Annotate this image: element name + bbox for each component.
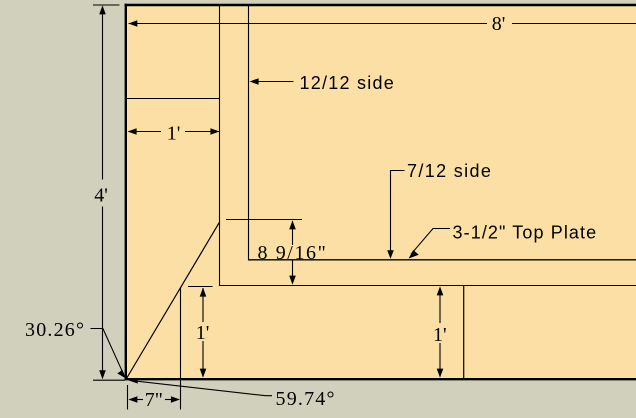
angle 59.74 leader [130, 380, 272, 395]
top border (wall top edge) [125, 4, 636, 6]
label 12/12 side leader [258, 81, 294, 83]
svg-text:7": 7" [145, 389, 163, 411]
dimension 4ft bottom arrow [99, 370, 106, 379]
dimension 8-9/16 top arrow [289, 220, 296, 229]
dimension 4ft bottom tick [93, 379, 125, 381]
dimension 7in left arrow [128, 396, 137, 403]
dimension 8-9/16 line [292, 221, 294, 245]
angle 59.74 arrow [128, 378, 138, 383]
dimension 7in right arrow [171, 396, 180, 403]
dimension 1ft top line [129, 131, 162, 133]
svg-text:4': 4' [94, 185, 108, 207]
hip rafter diagonal [126, 222, 219, 378]
dimension 4ft top arrow [99, 5, 106, 14]
dimension 1ft right top arrow [437, 286, 444, 295]
dimension 1ft top right arrow [210, 128, 219, 135]
dimension 1ft left extension line [188, 286, 213, 288]
svg-text:3-1/2" Top Plate: 3-1/2" Top Plate [453, 223, 598, 243]
svg-text:1': 1' [167, 122, 181, 144]
dimension 1ft left line [202, 288, 204, 322]
dimension 1ft right line [439, 288, 441, 324]
label 7/12 side arrow [387, 250, 394, 259]
stud line right [463, 286, 465, 380]
label 7/12 side leader [391, 171, 405, 255]
label top plate arrow [409, 250, 419, 259]
12/12 rafter left edge [219, 5, 221, 286]
tan drawing area [126, 4, 636, 380]
label 12/12 side arrow [250, 78, 259, 85]
svg-text:1': 1' [433, 324, 447, 346]
angle 30.26 leader [91, 329, 125, 376]
svg-text:30.26°: 30.26° [25, 319, 85, 341]
dimension 4ft top tick [93, 4, 120, 6]
svg-text:59.74°: 59.74° [276, 388, 336, 410]
dimension 1ft left top arrow [200, 288, 207, 297]
label top plate leader [411, 229, 450, 255]
dimension 8-9/16 bottom arrow [289, 276, 296, 285]
dimension 1ft top left arrow [128, 128, 137, 135]
svg-text:7/12 side: 7/12 side [407, 161, 492, 181]
top plate bottom line [220, 285, 636, 287]
seat cut line [226, 219, 302, 221]
svg-text:8': 8' [492, 13, 506, 35]
dimension 1ft right bottom arrow [437, 369, 444, 378]
dimension 7in line [130, 399, 144, 401]
angle 30.26 arrow [117, 370, 125, 378]
stud line left [180, 288, 182, 410]
svg-text:8 9/16": 8 9/16" [258, 242, 328, 264]
bottom border (wall bottom edge) [125, 378, 636, 380]
wall line at 1ft below top [126, 98, 220, 100]
dimension 1ft left bottom arrow [200, 369, 207, 378]
top plate top line [248, 259, 636, 261]
left border (wall left edge) [125, 4, 127, 380]
12/12 rafter right edge [248, 5, 250, 260]
dimension 4ft line [102, 7, 104, 180]
svg-text:1': 1' [196, 322, 210, 344]
svg-text:12/12 side: 12/12 side [300, 73, 396, 93]
dimension 8ft left arrow [128, 20, 137, 27]
dimension 8ft line [129, 23, 487, 25]
dimension 7in left extension line [127, 385, 129, 410]
